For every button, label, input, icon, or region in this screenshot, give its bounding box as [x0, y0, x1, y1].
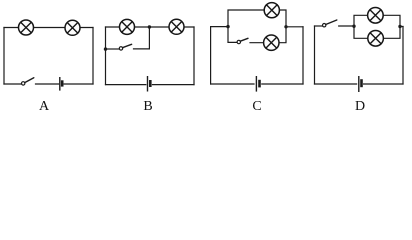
- wire B branch-right: [134, 48, 150, 50]
- wire D top branch: [354, 15, 400, 26]
- wire C right: [302, 27, 304, 84]
- wire A bottom-right: [64, 83, 93, 85]
- wire B branch-left: [106, 48, 120, 50]
- lamp L2: [65, 20, 80, 35]
- node D right junction: [398, 25, 401, 28]
- lamp L4: [169, 19, 184, 34]
- battery B1: [60, 77, 62, 91]
- lamp L6: [264, 35, 279, 50]
- wire A right: [92, 28, 94, 85]
- battery B3: [256, 76, 259, 92]
- lamp L1: [19, 20, 34, 35]
- wire B bottom-left: [106, 84, 146, 86]
- wire D right: [402, 27, 404, 85]
- node C right junction: [284, 25, 287, 28]
- node B mid-top junction: [148, 25, 151, 28]
- wire C left stub: [211, 26, 228, 28]
- wire D right stub: [400, 26, 403, 28]
- wire B right: [193, 27, 195, 85]
- wire B top: [106, 26, 195, 28]
- wire C left: [210, 27, 212, 84]
- wire B bottom-right: [153, 84, 195, 86]
- switch S1 (open): [22, 78, 34, 85]
- node B left junction: [104, 47, 107, 50]
- battery B2: [148, 76, 151, 92]
- lamp L3: [120, 19, 135, 34]
- switch S3 (open): [237, 38, 248, 43]
- svg-text:A: A: [39, 99, 50, 114]
- lamp L5: [264, 3, 279, 18]
- wire D top-left: [315, 25, 323, 27]
- wire C top branch: [228, 10, 286, 27]
- node C left junction: [226, 25, 229, 28]
- wire A top: [4, 27, 93, 29]
- wire A bottom-left: [4, 83, 21, 85]
- wire C bottom-left: [211, 83, 254, 85]
- wire A left: [3, 28, 5, 85]
- wire D bottom branch: [354, 26, 400, 38]
- battery B4: [359, 76, 362, 92]
- wire C bottom-right: [262, 83, 303, 85]
- wire A bottom-mid: [36, 83, 59, 85]
- svg-text:D: D: [355, 99, 365, 114]
- wire D top-mid: [339, 25, 354, 27]
- switch S4 (open): [323, 20, 337, 27]
- wire C bottom branch left: [228, 27, 237, 43]
- wire D left: [314, 26, 316, 84]
- node D left junction: [352, 25, 355, 28]
- svg-text:B: B: [143, 99, 152, 114]
- lamp L7: [368, 8, 384, 24]
- wire B left: [105, 27, 107, 85]
- wire D bottom-left: [315, 83, 357, 85]
- switch S2 (open): [119, 44, 131, 50]
- lamp L8: [368, 31, 384, 47]
- wire D bottom-right: [364, 83, 403, 85]
- wire B branch vertical: [148, 27, 150, 49]
- wire C bottom branch right: [250, 27, 286, 43]
- svg-text:C: C: [252, 99, 261, 114]
- wire C right stub: [286, 26, 303, 28]
